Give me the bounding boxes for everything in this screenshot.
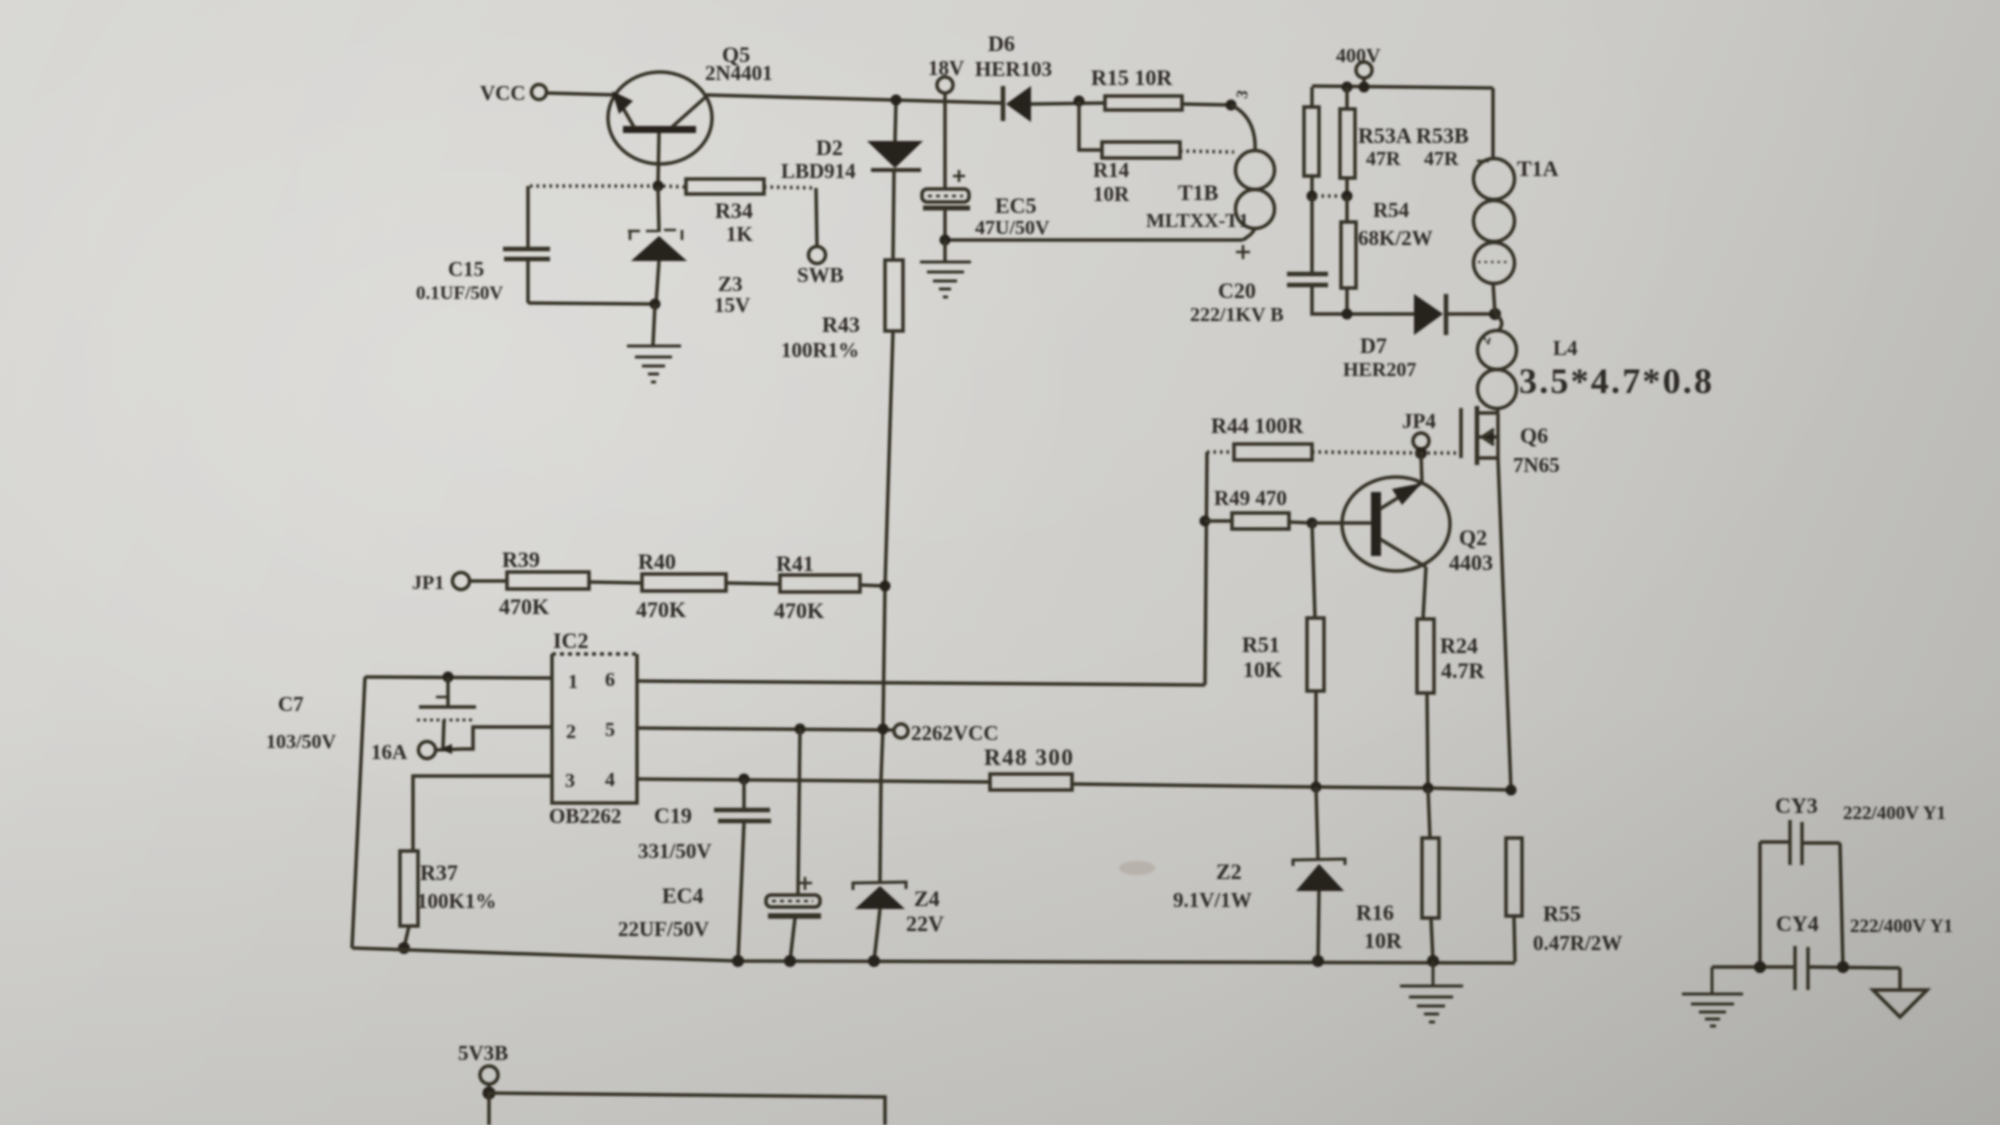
resistor R14 xyxy=(1093,142,1180,206)
node CY3 left bus junction xyxy=(1754,961,1766,973)
svg-text:7N65: 7N65 xyxy=(1513,453,1560,477)
wire R44 vertical to pin6 line xyxy=(1205,452,1207,685)
wire dashed between R53A R53B bottoms xyxy=(1315,194,1344,198)
svg-text:Z4: Z4 xyxy=(914,886,940,911)
node VCC terminal xyxy=(480,81,547,105)
svg-text:R34: R34 xyxy=(715,198,753,223)
wire R39 to R40 xyxy=(589,582,642,583)
svg-text:D2: D2 xyxy=(816,135,843,160)
wire R43 bottom long vertical bus xyxy=(880,331,893,881)
wire C20 to D7 xyxy=(1312,310,1414,314)
svg-text:HER103: HER103 xyxy=(975,57,1052,81)
resistor R44 xyxy=(1207,413,1312,460)
svg-text:R53A R53B: R53A R53B xyxy=(1358,123,1469,148)
wire to ground xyxy=(653,304,655,345)
wire R15 to T1B xyxy=(1182,104,1231,105)
svg-text:68K/2W: 68K/2W xyxy=(1358,226,1433,250)
wire Q2 collector to R24 xyxy=(1423,567,1426,619)
node R54 bottom junction xyxy=(1342,309,1353,320)
svg-text:R51: R51 xyxy=(1242,632,1280,657)
svg-text:6: 6 xyxy=(605,669,615,691)
wire R48 to Q6 source junction xyxy=(1072,784,1511,790)
svg-text:D7: D7 xyxy=(1360,333,1387,358)
svg-text:R16: R16 xyxy=(1356,900,1394,925)
wire dashed base to C15 xyxy=(530,184,652,188)
svg-text:3: 3 xyxy=(1234,89,1252,100)
svg-text:C20: C20 xyxy=(1218,278,1256,303)
stain mark xyxy=(1119,861,1155,875)
resistor R24 xyxy=(1417,619,1486,788)
resistor R48 xyxy=(984,745,1074,790)
wire bottom bus xyxy=(352,948,1515,963)
node 5V3B terminal xyxy=(458,1041,508,1084)
resistor R55 xyxy=(1506,838,1622,962)
node 18V terminal xyxy=(928,56,964,101)
svg-text:R37: R37 xyxy=(420,860,458,885)
diode D2 xyxy=(781,100,923,260)
svg-text:22UF/50V: 22UF/50V xyxy=(618,917,709,941)
resistor R16 xyxy=(1356,788,1439,961)
wire C7 left vertical xyxy=(352,677,365,948)
node R37 bus junction xyxy=(398,942,410,954)
svg-text:OB2262: OB2262 xyxy=(549,804,621,828)
node D2 top junction xyxy=(891,95,902,106)
wire dashed R34 left lead xyxy=(663,186,686,187)
wire 16A hook to IC2 pin2 xyxy=(462,727,552,749)
resistor R37 xyxy=(400,851,496,948)
node EC4 bus junction xyxy=(784,955,796,967)
wire Q5 collector to D6 xyxy=(708,95,1002,103)
wire Q5 base stem xyxy=(658,133,659,186)
resistor R53B xyxy=(1340,87,1469,196)
resistor R41 xyxy=(774,551,860,623)
zener Z4 xyxy=(853,882,944,961)
ground below Q5 xyxy=(627,346,681,382)
svg-text:MLTXX-T1: MLTXX-T1 xyxy=(1146,210,1249,232)
node EC5 bottom junction xyxy=(940,235,951,246)
svg-text:470K: 470K xyxy=(774,598,824,623)
svg-text:1K: 1K xyxy=(726,222,754,246)
svg-text:JP4: JP4 xyxy=(1402,409,1436,433)
node Z2 bus junction xyxy=(1312,955,1324,967)
capacitor EC5 xyxy=(922,101,1050,240)
svg-text:5: 5 xyxy=(605,719,615,741)
capacitor C19 xyxy=(638,779,771,961)
svg-text:9.1V/1W: 9.1V/1W xyxy=(1173,888,1252,912)
capacitor CY4 xyxy=(1712,911,1953,990)
wire EC5 to ground xyxy=(943,240,947,261)
node bus 2262VCC junction xyxy=(878,724,889,735)
capacitor C20 xyxy=(1190,196,1328,326)
resistor R43 xyxy=(781,260,903,362)
svg-text:R39: R39 xyxy=(502,547,540,572)
node EC4 top junction xyxy=(795,724,806,735)
svg-text:T1B: T1B xyxy=(1178,180,1219,205)
svg-text:LBD914: LBD914 xyxy=(781,159,856,183)
svg-text:470K: 470K xyxy=(636,597,686,622)
ground below CY4 left xyxy=(1682,967,1743,1026)
svg-text:4403: 4403 xyxy=(1449,550,1493,575)
svg-text:16A: 16A xyxy=(371,740,408,764)
svg-text:VCC: VCC xyxy=(480,81,526,105)
node JP4 terminal xyxy=(1402,409,1436,449)
svg-text:CY4: CY4 xyxy=(1776,911,1819,936)
svg-text:Z2: Z2 xyxy=(1216,859,1242,884)
wire IC2 pin1 line xyxy=(365,677,552,678)
wire CY3 right vertical xyxy=(1840,843,1843,967)
wire R14 branch xyxy=(1079,101,1102,150)
svg-text:R15 10R: R15 10R xyxy=(1091,65,1173,90)
svg-text:1: 1 xyxy=(568,671,578,693)
wire 400V top rail xyxy=(1312,86,1493,88)
transformer T1A winding xyxy=(1474,88,1559,314)
node CY3 right bus junction xyxy=(1837,961,1849,973)
svg-text:47R: 47R xyxy=(1366,148,1401,170)
wire dashed R14 to T1B xyxy=(1180,151,1234,152)
node Q2 base junction xyxy=(1307,518,1318,529)
svg-text:5V3B: 5V3B xyxy=(458,1041,508,1065)
svg-text:4: 4 xyxy=(605,769,615,791)
node 2262VCC terminal xyxy=(894,721,999,745)
wire Q6 source down to R55 xyxy=(1498,458,1511,790)
svg-text:CY3: CY3 xyxy=(1775,793,1818,818)
svg-text:100R1%: 100R1% xyxy=(781,338,859,362)
ground below R16 xyxy=(1400,961,1463,1022)
ground earth triangle right xyxy=(1873,968,1927,1017)
svg-text:2262VCC: 2262VCC xyxy=(911,721,999,745)
capacitor EC4 xyxy=(618,729,821,961)
svg-text:47U/50V: 47U/50V xyxy=(975,217,1050,239)
wire IC2 pin3 line xyxy=(413,776,552,851)
node D7 T1A junction xyxy=(1489,308,1501,320)
svg-text:R49 470: R49 470 xyxy=(1214,486,1287,510)
svg-text:222/400V Y1: 222/400V Y1 xyxy=(1843,803,1946,824)
svg-text:R24: R24 xyxy=(1440,633,1478,658)
svg-text:R14: R14 xyxy=(1093,158,1130,182)
wire dashed R34 to SWB xyxy=(764,187,816,188)
svg-text:JP1: JP1 xyxy=(412,572,444,594)
zener Z2 xyxy=(1173,787,1345,961)
resistor R49 xyxy=(1205,486,1312,529)
resistor R15 xyxy=(1091,65,1182,110)
wire R41 to bus xyxy=(860,585,885,586)
diode D7 xyxy=(1343,294,1495,381)
svg-text:4.7R: 4.7R xyxy=(1441,658,1486,683)
node C19 junction xyxy=(739,774,750,785)
inductor L4 xyxy=(1476,314,1714,409)
svg-text:SWB: SWB xyxy=(797,263,844,287)
wire SWB stem xyxy=(816,188,817,246)
svg-text:R41: R41 xyxy=(776,551,814,576)
svg-text:2N4401: 2N4401 xyxy=(705,61,773,85)
op-amp IC2 box xyxy=(549,628,637,828)
wire CY3 left vertical xyxy=(1758,842,1762,967)
wire dashed gate line xyxy=(1312,452,1459,453)
svg-text:R48 300: R48 300 xyxy=(984,745,1074,770)
svg-text:R40: R40 xyxy=(638,549,676,574)
node R53B bottom xyxy=(1342,191,1353,202)
node 16A terminal xyxy=(371,740,462,764)
svg-text:IC2: IC2 xyxy=(553,628,588,653)
svg-text:Q6: Q6 xyxy=(1520,423,1548,448)
wire IC2 pin6 line xyxy=(637,681,1205,685)
node SWB terminal xyxy=(797,247,844,288)
node T1B top junction xyxy=(1226,100,1237,111)
wire VCC to Q5 emitter xyxy=(547,93,618,95)
svg-text:R43: R43 xyxy=(822,312,860,337)
node R53A bottom xyxy=(1307,191,1318,202)
svg-text:R54: R54 xyxy=(1373,198,1410,222)
node Z4 bus junction xyxy=(868,955,880,967)
svg-text:222/400V Y1: 222/400V Y1 xyxy=(1850,916,1953,937)
node box corner junction xyxy=(483,1087,496,1100)
node R53B top junction xyxy=(1342,82,1353,93)
wire base junction to Q2 xyxy=(1312,521,1371,525)
zener Z3 xyxy=(628,186,750,317)
svg-text:18V: 18V xyxy=(928,56,964,80)
transistor Q6 MOSFET xyxy=(1461,406,1560,477)
svg-text:C19: C19 xyxy=(654,803,692,828)
svg-text:47R: 47R xyxy=(1424,148,1459,170)
node C19 bus junction xyxy=(732,955,744,967)
node R24 junction on R48 line xyxy=(1423,783,1434,794)
wire IC2 pin4 line xyxy=(637,779,990,782)
wire C15 bottom to Z3 bottom xyxy=(528,303,655,304)
node R16 bus junction xyxy=(1427,955,1439,967)
node R49 junction xyxy=(1200,516,1211,527)
svg-text:10R: 10R xyxy=(1093,182,1130,206)
svg-text:C15: C15 xyxy=(448,257,484,281)
svg-text:C7: C7 xyxy=(278,692,304,716)
svg-text:HER207: HER207 xyxy=(1343,359,1416,381)
wire R40 to R41 xyxy=(726,583,780,584)
capacitor C15 xyxy=(416,186,550,304)
node 400V junction xyxy=(1359,82,1370,93)
svg-text:2: 2 xyxy=(566,721,576,743)
transistor Q2 xyxy=(1342,453,1493,575)
node JP1 terminal xyxy=(412,572,470,594)
svg-text:103/50V: 103/50V xyxy=(266,731,337,753)
transformer T1B winding xyxy=(1146,89,1275,259)
resistor R34 xyxy=(686,179,764,246)
node C7 junction xyxy=(443,672,454,683)
svg-text:EC5: EC5 xyxy=(995,193,1037,218)
resistor R40 xyxy=(636,549,726,622)
resistor R54 xyxy=(1341,196,1433,313)
svg-text:EC4: EC4 xyxy=(662,883,704,908)
svg-text:15V: 15V xyxy=(714,293,750,317)
wire bottom box outline xyxy=(489,1093,885,1125)
svg-text:222/1KV B: 222/1KV B xyxy=(1190,304,1284,326)
svg-text:T1A: T1A xyxy=(1517,156,1559,181)
diode D6 xyxy=(975,31,1105,122)
wire IC2 pin5 line 2262VCC xyxy=(637,728,894,730)
svg-text:0.1UF/50V: 0.1UF/50V xyxy=(416,283,503,304)
transistor Q5 xyxy=(608,42,773,164)
node R41 bus junction xyxy=(880,581,891,592)
svg-text:3: 3 xyxy=(565,770,575,792)
node Q6 source junction xyxy=(1506,785,1517,796)
node base junction xyxy=(653,181,664,192)
svg-text:470K: 470K xyxy=(499,594,549,619)
wire 5V3B stem xyxy=(487,1084,491,1093)
svg-text:R44 100R: R44 100R xyxy=(1211,413,1304,438)
svg-text:331/50V: 331/50V xyxy=(638,839,712,863)
node 400V terminal xyxy=(1336,45,1381,86)
svg-text:10R: 10R xyxy=(1364,928,1403,953)
ground below EC5 xyxy=(920,262,971,297)
svg-text:0.47R/2W: 0.47R/2W xyxy=(1533,931,1622,955)
svg-text:22V: 22V xyxy=(906,911,944,936)
svg-text:D6: D6 xyxy=(988,31,1015,56)
wire T1B bottom to EC5 node xyxy=(945,238,1243,242)
capacitor C7 xyxy=(266,677,476,753)
resistor R51 xyxy=(1242,523,1324,787)
svg-text:400V: 400V xyxy=(1336,45,1381,67)
resistor R39 xyxy=(470,547,589,619)
svg-text:R55: R55 xyxy=(1543,901,1581,926)
capacitor CY3 xyxy=(1760,793,1946,865)
resistor R53A xyxy=(1304,87,1319,196)
svg-text:L4: L4 xyxy=(1553,336,1578,360)
node Z3 bottom junction xyxy=(650,299,661,310)
svg-text:3.5*4.7*0.8: 3.5*4.7*0.8 xyxy=(1519,361,1714,401)
node JP4 junction xyxy=(1415,447,1427,459)
svg-text:Q2: Q2 xyxy=(1459,525,1487,550)
node R51 junction on R48 line xyxy=(1311,782,1322,793)
svg-text:10K: 10K xyxy=(1243,657,1282,682)
node R14 junction xyxy=(1074,96,1085,107)
svg-text:100K1%: 100K1% xyxy=(417,889,496,913)
